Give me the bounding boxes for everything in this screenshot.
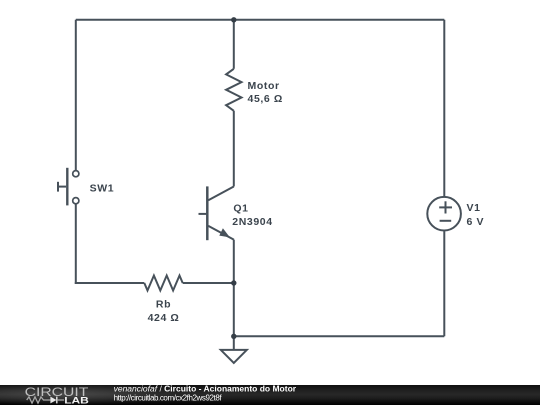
switch SW1 bottom terminal circle — [73, 198, 79, 204]
ground symbol — [221, 336, 247, 363]
transistor Q1 collector diagonal — [208, 187, 234, 201]
transistor Q1 base stub — [199, 213, 207, 215]
voltage source V1 circle — [427, 197, 461, 231]
voltage source V1 plus sign — [439, 201, 452, 221]
svg-text:http://circuitlab.com/cx2fh2ws: http://circuitlab.com/cx2fh2ws92t8f — [114, 393, 223, 402]
switch SW1 actuator bar — [66, 168, 68, 206]
footer bar — [0, 385, 540, 405]
wire right vertical lower — [443, 231, 445, 336]
wire Rb to emitter node — [183, 282, 234, 284]
ground stub — [233, 336, 235, 350]
switch SW1 top terminal circle — [73, 171, 79, 177]
wire right vertical upper — [443, 20, 445, 197]
transistor Q1 base bar — [206, 186, 209, 240]
resistor Rb (zigzag) — [144, 276, 182, 291]
ground triangle — [221, 350, 247, 363]
wire emitter down — [233, 240, 235, 283]
logo diode bar — [56, 397, 58, 404]
svg-text:venanciofaf / Circuito - Acion: venanciofaf / Circuito - Acionamento do … — [114, 383, 297, 393]
wire top-right segment — [234, 19, 444, 21]
voltage source V1 minus sign — [440, 220, 452, 222]
wire top-left segment — [76, 19, 234, 21]
logo resistor squiggle — [27, 397, 51, 403]
logo diode wire — [57, 399, 64, 401]
wire middle vertical top — [233, 20, 235, 69]
wire left vertical lower — [75, 204, 77, 284]
wire bottom-left horizontal to Rb — [75, 282, 145, 284]
switch SW1 plunger — [58, 186, 66, 188]
wire left vertical upper — [75, 20, 77, 171]
transistor Q1 emitter arrow — [219, 228, 230, 237]
switch SW1 plunger tick — [57, 182, 59, 192]
wire bottom horizontal — [234, 335, 444, 337]
switch SW1 — [58, 168, 79, 206]
node junction ground — [231, 334, 236, 339]
resistor Motor (zigzag) — [226, 69, 241, 111]
node junction base-emitter — [231, 280, 236, 285]
wire motor to collector — [233, 111, 235, 187]
transistor Q1 emitter diagonal — [208, 226, 234, 240]
wire emitter node to ground node — [233, 283, 235, 336]
transistor Q1 — [199, 186, 234, 240]
logo diode symbol — [50, 397, 56, 404]
node junction top — [231, 17, 236, 22]
svg-text:LAB: LAB — [64, 396, 89, 405]
